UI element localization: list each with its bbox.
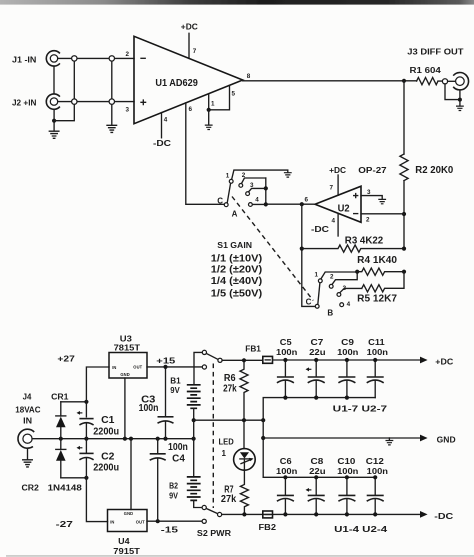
resistor R4 [357, 255, 404, 275]
ground U1 ref pins [205, 125, 213, 129]
node output junction [402, 79, 406, 83]
wire shield to terminal column [54, 104, 74, 120]
terminal TP2 [109, 56, 114, 61]
svg-text:IN: IN [23, 417, 32, 426]
op-amp U2 [315, 186, 361, 222]
U1 pin 1 stub [208, 94, 210, 110]
svg-text:100n: 100n [337, 348, 358, 357]
svg-text:6: 6 [305, 197, 309, 204]
wire terminal link left column [73, 58, 75, 101]
svg-text:J3 DIFF OUT: J3 DIFF OUT [407, 48, 463, 57]
svg-text:1: 1 [211, 101, 215, 108]
svg-text:B1: B1 [170, 376, 181, 385]
ground U2 pin3 [378, 199, 386, 203]
svg-text:2200u: 2200u [93, 463, 119, 474]
svg-text:GND: GND [120, 372, 129, 377]
svg-text:1: 1 [226, 173, 230, 180]
resistor R2 [400, 154, 454, 181]
wire output to R2 [403, 81, 405, 154]
regulator U3 [109, 335, 147, 379]
wire U3 out to S2 [147, 366, 203, 368]
capacitor C9 [337, 338, 358, 397]
battery B2 [169, 477, 201, 501]
junction AC node cap column [84, 437, 88, 441]
svg-text:2200u: 2200u [93, 426, 119, 437]
ground J3 [456, 106, 464, 110]
svg-text:1N4148: 1N4148 [48, 483, 83, 492]
terminal TP1 [72, 56, 77, 61]
wire pin1 to ground [208, 110, 210, 125]
svg-text:FB1: FB1 [245, 345, 261, 354]
junction B1 mid row [192, 418, 196, 422]
wire terminal link right column [111, 58, 113, 101]
node U2 output / gain rail [300, 202, 304, 206]
svg-text:+DC: +DC [435, 357, 453, 366]
scan border top [0, 0, 474, 5]
junction U4 gnd [129, 437, 133, 441]
mid ground row [194, 419, 264, 421]
svg-text:27k: 27k [223, 384, 237, 395]
svg-text:3: 3 [367, 189, 371, 196]
svg-text:3: 3 [126, 107, 130, 114]
switch S2 pole A [194, 350, 222, 385]
junction J3 shield [458, 98, 462, 102]
U2 +DC pin 7 [329, 166, 346, 195]
U2 -DC pin 4 [311, 213, 338, 236]
wire +27 rail [86, 367, 109, 417]
svg-text:S2 PWR: S2 PWR [197, 529, 231, 538]
ground bus left [61, 438, 194, 440]
connector J3 [407, 48, 468, 90]
svg-text:R2 20K0: R2 20K0 [415, 165, 454, 176]
junction battery column [192, 437, 196, 441]
wire gnd to C2 [85, 439, 87, 454]
wire B2 to S2 [194, 500, 203, 507]
junction mid row right [261, 418, 265, 422]
ground symbol on GND rail [388, 438, 390, 440]
terminal TP3 [72, 99, 77, 104]
capacitor C10 [337, 457, 358, 514]
wire J1 shield to J2 shield [53, 66, 55, 94]
svg-text:U2: U2 [338, 203, 351, 214]
capacitor C6 [276, 457, 297, 514]
svg-text:100n: 100n [168, 442, 188, 453]
wire J4 to rectifier [32, 438, 61, 440]
junction U3 gnd [123, 437, 127, 441]
svg-text:C9: C9 [341, 338, 354, 347]
svg-text:CR1: CR1 [51, 392, 69, 401]
svg-text:2: 2 [366, 217, 370, 224]
svg-text:100n: 100n [276, 348, 297, 357]
connector J2 [12, 94, 60, 109]
svg-text:3: 3 [250, 182, 254, 189]
wire J2 shield to ground [53, 109, 55, 131]
U2 pin 3 wire to ground [361, 189, 382, 199]
wire S2A to FB1 [222, 359, 263, 361]
svg-text:+15: +15 [156, 356, 176, 365]
junction dots +DC rail [283, 358, 287, 362]
ferrite bead FB2 [259, 511, 277, 532]
resistor R7 [221, 470, 249, 514]
ferrite bead FB1 [245, 345, 272, 364]
node U2 inverting input junction [402, 212, 406, 216]
arrow -DC [420, 511, 428, 518]
svg-text:100n: 100n [337, 467, 358, 476]
wire right column to ground [111, 104, 113, 125]
svg-text:-27: -27 [56, 520, 74, 529]
svg-text:7: 7 [193, 48, 197, 55]
svg-text:R1 604: R1 604 [410, 66, 442, 75]
svg-text:2: 2 [126, 51, 130, 58]
svg-text:9V: 9V [169, 491, 178, 500]
+DC rail [273, 359, 421, 361]
svg-text:1/5 (±50V): 1/5 (±50V) [211, 288, 262, 299]
svg-text:22u: 22u [309, 348, 326, 357]
junction dots lower rows [283, 475, 287, 479]
svg-text:4: 4 [164, 117, 168, 124]
svg-text:S1 GAIN: S1 GAIN [217, 241, 252, 250]
wire J3 shield [445, 84, 460, 100]
svg-text:3: 3 [343, 285, 347, 292]
svg-text:2: 2 [330, 273, 334, 280]
terminal TP4 [109, 99, 114, 104]
svg-text:5: 5 [232, 91, 236, 98]
svg-text:IN: IN [112, 365, 116, 370]
junction dots return row [283, 396, 287, 400]
U2 pin 2 wire [361, 214, 404, 224]
wire gain rail [302, 204, 316, 306]
S1 gain table [211, 241, 262, 299]
junction LED column mid row [242, 418, 246, 422]
svg-text:J1 -IN: J1 -IN [12, 55, 37, 64]
switch S2 pole B [202, 505, 222, 523]
svg-text:7: 7 [330, 185, 334, 192]
svg-text:U1 AD629: U1 AD629 [155, 78, 198, 89]
capacitor C11 [367, 338, 388, 397]
svg-text:R3 4K22: R3 4K22 [345, 235, 384, 246]
svg-text:1/2 (±20V): 1/2 (±20V) [211, 265, 262, 276]
capacitor C2 [77, 446, 120, 474]
svg-text:C11: C11 [368, 338, 385, 347]
resistor R1 [410, 66, 443, 85]
junction S1A throws [264, 186, 268, 190]
switch S1 pole A [217, 170, 288, 219]
svg-text:LED: LED [219, 437, 234, 446]
junction AC node diode column [59, 437, 63, 441]
junction -27 node [84, 476, 88, 480]
junction C3 bottom [163, 437, 167, 441]
ground S1A position1 [284, 173, 292, 177]
svg-text:U1-7 U2-7: U1-7 U2-7 [333, 405, 388, 414]
svg-text:1/4 (±40V): 1/4 (±40V) [211, 276, 262, 287]
svg-text:2: 2 [242, 172, 246, 179]
svg-text:100n: 100n [139, 403, 159, 414]
diode CR2 [22, 439, 83, 493]
junction pin1 ground [207, 108, 211, 112]
svg-text:-DC: -DC [153, 139, 171, 148]
svg-text:C: C [306, 297, 312, 306]
wire B1 to mid node and B2 [193, 408, 195, 477]
node rail R4 [402, 270, 406, 274]
svg-text:1: 1 [315, 272, 319, 279]
svg-text:18VAC: 18VAC [15, 406, 40, 415]
svg-text:22u: 22u [309, 467, 326, 476]
switch S1 pole B [306, 272, 362, 318]
svg-text:9V: 9V [170, 386, 180, 395]
junction R7 bottom [242, 512, 246, 516]
svg-text:IN: IN [110, 519, 114, 524]
scan border bottom [6, 555, 474, 556]
-DC rail [222, 513, 420, 515]
svg-text:C7: C7 [311, 338, 324, 347]
wire C2 to -27 to U4 in [86, 458, 107, 521]
wire J2 to U1 +IN [58, 101, 134, 103]
svg-text:CR2: CR2 [22, 483, 40, 492]
capacitor C4 [150, 439, 188, 522]
svg-text:7815T: 7815T [114, 344, 141, 353]
gang dashed link S2 [212, 364, 214, 509]
svg-text:GND: GND [124, 511, 133, 516]
U2 output wire pin 6 [266, 203, 315, 205]
regulator U4 [108, 510, 148, 556]
svg-text:R6: R6 [224, 373, 236, 384]
svg-text:U1-4 U2-4: U1-4 U2-4 [334, 525, 388, 534]
svg-text:B2: B2 [169, 482, 178, 491]
wire U4 out to S2 [147, 520, 202, 522]
junction R6 top [242, 358, 246, 362]
wire C1 bottom [85, 423, 87, 438]
svg-text:OUT: OUT [133, 365, 142, 370]
resistor R5 [357, 272, 404, 305]
junction C3 top on +15 [163, 365, 167, 369]
wire CR2 to -27 node [61, 477, 87, 479]
ground J2 shield [49, 131, 59, 138]
svg-text:C: C [217, 196, 223, 205]
svg-text:1/1 (±10V): 1/1 (±10V) [211, 253, 262, 264]
svg-text:+DC: +DC [181, 22, 198, 31]
svg-text:4: 4 [347, 301, 351, 308]
svg-text:C5: C5 [280, 338, 292, 347]
wire CR1 to +27 node [61, 401, 87, 403]
op-amp U1 [134, 36, 243, 123]
arrow GND [420, 435, 428, 442]
svg-text:27k: 27k [221, 494, 237, 505]
svg-text:C10: C10 [337, 457, 356, 466]
capacitor C3 [139, 367, 174, 439]
node rail R3 [402, 247, 406, 251]
capacitor C1 [77, 411, 120, 437]
battery B1 [170, 376, 200, 408]
svg-text:6: 6 [189, 106, 193, 113]
svg-text:1: 1 [222, 449, 227, 458]
wire J1 to U1 -IN [58, 57, 134, 59]
svg-text:C8: C8 [311, 457, 324, 466]
junction J2 shield [52, 119, 56, 123]
svg-text:-DC: -DC [311, 225, 329, 234]
svg-text:+DC: +DC [329, 166, 346, 175]
gang dashed link S1 [232, 197, 313, 301]
svg-text:100n: 100n [367, 348, 388, 357]
GND rail out [263, 437, 420, 439]
svg-text:B: B [327, 308, 333, 317]
svg-text:C2: C2 [101, 452, 115, 463]
connector J4 [15, 393, 40, 449]
svg-text:A: A [232, 210, 238, 219]
capacitor C12 [366, 457, 388, 514]
U1 output wire pin 8 [243, 80, 417, 82]
svg-text:4: 4 [332, 218, 336, 225]
svg-text:C6: C6 [280, 457, 292, 466]
ground right column [107, 125, 117, 132]
arrow +DC [420, 357, 428, 364]
svg-text:-DC: -DC [434, 512, 453, 521]
resistor R6 [223, 360, 248, 420]
wire R2 to feedback rail [403, 181, 405, 249]
junction +27 node [84, 400, 88, 404]
svg-text:OP-27: OP-27 [358, 166, 387, 175]
wire U3 gnd pin [124, 378, 126, 439]
vertical ground link [262, 420, 264, 477]
capacitor C8 [306, 457, 326, 514]
svg-text:4: 4 [255, 197, 259, 204]
U1 pin 6 wire to switch A common [186, 103, 225, 204]
LED 1 [219, 420, 256, 470]
svg-text:-15: -15 [161, 526, 179, 535]
svg-text:C4: C4 [172, 454, 185, 465]
U1 -DC pin 4 [153, 113, 171, 148]
svg-text:R4 1K40: R4 1K40 [357, 255, 397, 266]
U1 +DC pin 7 [181, 22, 198, 58]
junction C4 bottom on -15 row [156, 519, 160, 523]
svg-text:100n: 100n [367, 467, 388, 476]
svg-text:GND: GND [437, 435, 456, 444]
svg-text:OUT: OUT [136, 519, 145, 524]
svg-text:C1: C1 [101, 415, 115, 426]
svg-text:100n: 100n [276, 467, 297, 476]
U1 pin 5 stub [209, 85, 230, 110]
wire J4 shield ground [27, 448, 29, 459]
diode CR1 [51, 392, 69, 438]
decoupling return row top [263, 398, 375, 421]
junction C4 top [156, 437, 160, 441]
capacitor C5 [276, 338, 297, 397]
svg-text:J2 +IN: J2 +IN [12, 98, 37, 107]
resistor R3 [302, 235, 404, 252]
capacitor C7 [306, 338, 326, 397]
wire J3 shield stub [459, 100, 461, 106]
svg-text:U4: U4 [118, 537, 130, 546]
lower decoupling top row [263, 476, 375, 478]
node gain rail R3 [300, 247, 304, 251]
svg-text:R5 12K7: R5 12K7 [357, 293, 397, 304]
svg-text:+27: +27 [57, 355, 75, 364]
wire U4 gnd pin [130, 439, 132, 510]
connector J1 [12, 51, 60, 66]
svg-text:C12: C12 [366, 457, 385, 466]
svg-text:J4: J4 [23, 393, 32, 402]
svg-text:7915T: 7915T [113, 547, 140, 556]
svg-text:8: 8 [247, 73, 251, 80]
ground J4 [23, 460, 33, 467]
svg-text:U3: U3 [120, 335, 133, 344]
svg-text:FB2: FB2 [259, 523, 277, 532]
junction gnd out row [261, 436, 265, 440]
node R4 left [355, 270, 359, 274]
